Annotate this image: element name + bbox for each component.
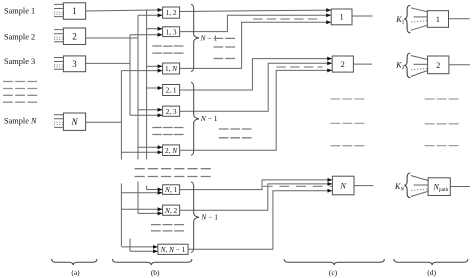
svg-text:Sample 2: Sample 2	[4, 32, 35, 41]
svg-text:Sample 1: Sample 1	[4, 6, 35, 15]
svg-text:2: 2	[341, 60, 345, 69]
svg-text:N, N − 1: N, N − 1	[160, 245, 186, 254]
svg-text:2: 2	[72, 31, 77, 41]
svg-text:1: 1	[72, 6, 77, 16]
svg-text:N: N	[340, 181, 347, 190]
svg-text:(c): (c)	[329, 268, 338, 277]
svg-text:2, N: 2, N	[165, 146, 178, 155]
svg-text:N, 1: N, 1	[164, 185, 178, 194]
svg-text:1: 1	[436, 15, 440, 24]
svg-text:1, N: 1, N	[165, 64, 178, 73]
svg-text:1: 1	[340, 13, 344, 22]
svg-text:1, 2: 1, 2	[166, 8, 177, 17]
svg-text:N: N	[70, 117, 78, 127]
svg-text:3: 3	[72, 59, 77, 69]
svg-text:Sample 3: Sample 3	[4, 57, 35, 66]
svg-text:K2: K2	[395, 61, 404, 72]
svg-text:(a): (a)	[71, 268, 80, 277]
svg-text:N − 1: N − 1	[200, 213, 218, 222]
svg-text:N, 2: N, 2	[164, 206, 178, 215]
svg-text:2, 1: 2, 1	[166, 86, 177, 95]
svg-text:2, 3: 2, 3	[166, 107, 177, 116]
svg-text:KN: KN	[394, 182, 404, 193]
svg-text:(b): (b)	[151, 268, 160, 277]
svg-text:(d): (d)	[427, 268, 436, 277]
svg-text:N − 1: N − 1	[200, 114, 218, 123]
svg-text:1, 3: 1, 3	[166, 27, 177, 36]
svg-text:2: 2	[436, 61, 440, 70]
svg-text:Sample N: Sample N	[4, 116, 37, 125]
svg-text:K1: K1	[395, 15, 404, 26]
